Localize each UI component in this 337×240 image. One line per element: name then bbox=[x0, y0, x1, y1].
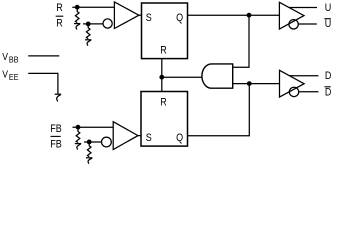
wire R chain vertical bbox=[161, 59, 163, 92]
resistor pulldown Rbar bbox=[85, 26, 91, 46]
node Ubar label bbox=[324, 18, 331, 30]
node VEE label bbox=[2, 69, 18, 82]
svg-text:U: U bbox=[325, 18, 332, 30]
node FB label bbox=[50, 123, 62, 135]
svg-text:R: R bbox=[160, 45, 167, 57]
svg-text:R: R bbox=[56, 2, 63, 14]
pin S latch2 bbox=[146, 132, 152, 144]
and-gate G1 (reset, points left) bbox=[202, 64, 233, 88]
svg-text:Q: Q bbox=[176, 132, 183, 144]
wire D branch to D buffer bbox=[249, 83, 279, 85]
wire U output bbox=[289, 7, 317, 9]
svg-text:V: V bbox=[2, 69, 8, 81]
svg-text:R: R bbox=[56, 18, 63, 30]
inverting bubble Dbar bbox=[289, 87, 298, 96]
svg-text:V: V bbox=[2, 51, 8, 63]
wire FB input bbox=[73, 126, 114, 128]
resistor pulldown FB bbox=[75, 129, 81, 150]
ground continuation mark VEE bbox=[55, 94, 61, 101]
svg-text:R: R bbox=[160, 97, 167, 109]
wire Dbar output bbox=[299, 91, 319, 93]
wire D branch down to Q2 bbox=[188, 84, 250, 136]
wire Ubar output bbox=[298, 23, 317, 25]
svg-text:U: U bbox=[325, 2, 332, 14]
pin Q latch1 bbox=[176, 12, 183, 24]
svg-text:FB: FB bbox=[50, 123, 62, 135]
inverting bubble input buffer R bbox=[103, 19, 112, 28]
node junction dot FB bbox=[76, 125, 81, 130]
node U label bbox=[325, 2, 332, 14]
wire AND output bbox=[162, 76, 203, 78]
pin R latch1 bbox=[160, 45, 167, 57]
pin Q latch2 bbox=[176, 132, 183, 144]
op-amp input buffer U2 (FB/FBbar) bbox=[113, 122, 138, 150]
wire D output bbox=[290, 75, 319, 77]
svg-text:Q: Q bbox=[176, 12, 183, 24]
pin S latch1 bbox=[146, 12, 152, 24]
node junction dot FBbar bbox=[87, 140, 92, 145]
latch box bottom (S-R latch 2) bbox=[141, 92, 188, 147]
wire FBbar input bbox=[84, 141, 102, 143]
resistor pulldown FBbar bbox=[86, 144, 92, 164]
node junction dot Rbar bbox=[86, 22, 91, 27]
wire Q1 to U buffer bbox=[188, 14, 280, 16]
node junction dot R bbox=[75, 5, 80, 10]
svg-text:EE: EE bbox=[9, 72, 19, 82]
op-amp input buffer U1 (R/Rbar) bbox=[114, 2, 138, 29]
op-amp output buffer U4 (D/Dbar) bbox=[280, 70, 305, 97]
wire AND bottom input bbox=[233, 83, 250, 85]
svg-text:S: S bbox=[146, 12, 152, 24]
svg-text:D: D bbox=[325, 70, 332, 82]
wire Rbar input bbox=[83, 23, 103, 25]
node junction dot D line bbox=[247, 81, 252, 86]
wire buffer1 to S bbox=[139, 14, 142, 16]
svg-text:D: D bbox=[325, 87, 332, 99]
node FBbar label bbox=[50, 136, 62, 150]
pin R latch2 bbox=[160, 97, 167, 109]
node junction dot R chain bbox=[159, 75, 164, 80]
op-amp output buffer U3 (U/Ubar) bbox=[279, 2, 304, 29]
svg-text:S: S bbox=[146, 132, 152, 144]
svg-text:BB: BB bbox=[9, 55, 19, 65]
wire R input bbox=[72, 6, 114, 8]
node junction dot U line bbox=[247, 13, 252, 18]
wire VEE bbox=[28, 73, 58, 93]
wire buffer2 to S bbox=[138, 135, 142, 137]
svg-text:FB: FB bbox=[50, 139, 62, 151]
wire VBB stub bbox=[28, 55, 59, 57]
wire U branch down to AND top input bbox=[233, 15, 249, 67]
inverting bubble Ubar bbox=[289, 20, 298, 29]
inverting bubble input buffer FB bbox=[102, 137, 112, 147]
node R label bbox=[56, 2, 63, 14]
node Rbar label bbox=[56, 16, 64, 29]
latch box top (S-R latch 1) bbox=[142, 3, 188, 59]
node VBB label bbox=[2, 51, 18, 64]
resistor pulldown R bbox=[74, 9, 80, 30]
node Dbar label bbox=[325, 87, 332, 99]
node D label bbox=[325, 70, 332, 82]
